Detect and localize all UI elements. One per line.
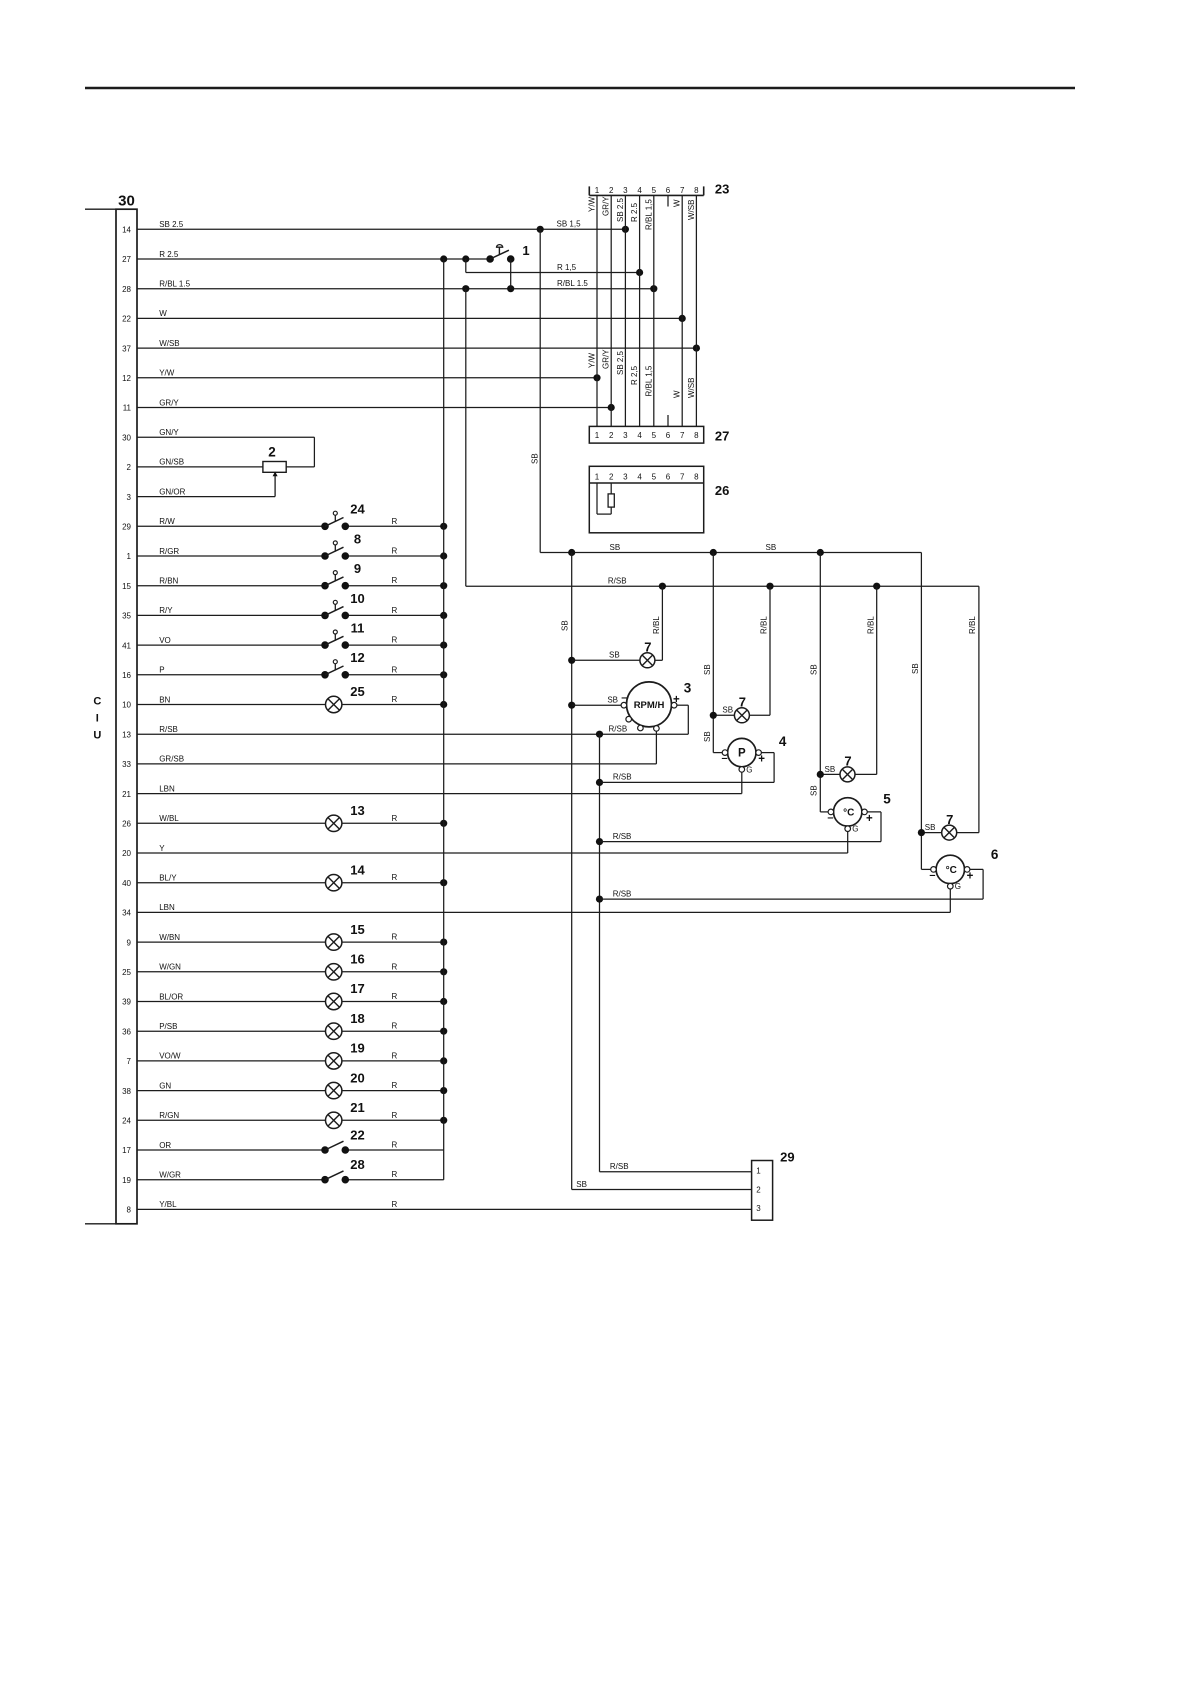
wire GN (CIU pin 38)	[122, 1081, 447, 1096]
svg-text:12: 12	[350, 650, 364, 665]
svg-text:1: 1	[595, 431, 600, 440]
svg-text:R/BN: R/BN	[159, 577, 178, 586]
svg-text:SB: SB	[810, 664, 819, 675]
wire LBN (CIU pin 21)	[122, 784, 742, 798]
svg-text:6: 6	[666, 186, 671, 195]
svg-text:R/BL: R/BL	[968, 616, 977, 634]
svg-text:22: 22	[350, 1128, 364, 1143]
lamp 19	[326, 1041, 365, 1070]
svg-text:R/SB: R/SB	[159, 725, 178, 734]
svg-text:Y: Y	[159, 844, 165, 853]
svg-text:15: 15	[122, 582, 131, 591]
svg-text:GR/Y: GR/Y	[602, 349, 611, 369]
svg-text:R: R	[392, 1051, 398, 1060]
wire R bus	[443, 259, 445, 1180]
connector 26	[589, 466, 729, 533]
switch 24	[321, 502, 365, 530]
svg-text:GR/Y: GR/Y	[159, 398, 179, 407]
switch 28	[321, 1157, 365, 1183]
svg-text:34: 34	[122, 909, 131, 918]
svg-text:–: –	[929, 870, 935, 882]
svg-text:R/BL 1.5: R/BL 1.5	[159, 280, 190, 289]
lamp 21	[326, 1100, 365, 1129]
svg-text:33: 33	[122, 760, 131, 769]
svg-text:+: +	[866, 813, 873, 825]
svg-text:+: +	[758, 753, 765, 765]
svg-text:W: W	[673, 390, 682, 398]
svg-text:2: 2	[609, 186, 614, 195]
svg-text:18: 18	[350, 1011, 364, 1026]
wire R/SB line to gauge 6	[600, 889, 984, 899]
svg-text:9: 9	[354, 561, 361, 576]
svg-text:SB 1,5: SB 1,5	[557, 220, 582, 229]
svg-text:U: U	[93, 730, 101, 742]
svg-text:10: 10	[350, 591, 364, 606]
svg-text:Y/W: Y/W	[588, 352, 597, 368]
svg-text:8: 8	[694, 473, 699, 482]
wire SB drop 3 (to gauge 5)	[810, 553, 831, 812]
wire R/Y (CIU pin 35)	[122, 606, 447, 621]
svg-text:R: R	[392, 933, 398, 942]
lamp 7 (3)	[840, 754, 855, 782]
svg-text:29: 29	[780, 1150, 794, 1165]
svg-text:SB: SB	[925, 823, 936, 832]
svg-text:9: 9	[127, 938, 132, 947]
svg-text:6: 6	[666, 473, 671, 482]
svg-text:–: –	[722, 753, 728, 765]
switch 9	[321, 561, 361, 589]
wire VO (CIU pin 41)	[122, 636, 447, 651]
svg-text:23: 23	[715, 182, 729, 197]
svg-text:R/BL 1.5: R/BL 1.5	[557, 279, 588, 288]
svg-text:5: 5	[652, 431, 657, 440]
wire switch 1 output to R/BL row	[511, 259, 589, 289]
lamp 15	[326, 922, 365, 951]
svg-text:7: 7	[680, 473, 685, 482]
lamp 25	[326, 684, 365, 713]
svg-text:11: 11	[123, 404, 132, 413]
svg-text:+: +	[967, 870, 974, 882]
lamp 7 (2)	[734, 695, 749, 723]
svg-text:R: R	[392, 992, 398, 1001]
wire Y/BL (CIU pin 8)	[127, 1200, 752, 1215]
svg-text:R 2.5: R 2.5	[630, 202, 639, 222]
svg-text:SB: SB	[531, 453, 540, 464]
svg-text:7: 7	[739, 695, 746, 710]
wire GN/SB (CIU pin 2)	[127, 458, 263, 472]
harness wire labels (lower)	[588, 349, 696, 398]
svg-text:21: 21	[122, 790, 131, 799]
svg-text:13: 13	[122, 730, 131, 739]
svg-text:SB: SB	[610, 543, 621, 552]
svg-text:10: 10	[122, 701, 131, 710]
svg-text:R/SB: R/SB	[610, 1162, 629, 1171]
svg-text:+: +	[673, 694, 680, 706]
svg-text:–: –	[621, 692, 627, 704]
svg-text:R/SB: R/SB	[613, 832, 632, 841]
svg-text:R: R	[392, 1081, 398, 1090]
svg-text:R/GR: R/GR	[159, 547, 179, 556]
lamp 7 (1)	[640, 640, 655, 668]
svg-text:6: 6	[666, 431, 671, 440]
svg-text:R 2.5: R 2.5	[159, 250, 179, 259]
svg-text:7: 7	[946, 812, 953, 827]
svg-text:27: 27	[122, 255, 131, 264]
connector 23-27 harness wires	[597, 195, 696, 426]
svg-text:R 2,5: R 2,5	[630, 365, 639, 385]
wire W/BL (CIU pin 26)	[122, 814, 447, 829]
lamp 7 (4)	[942, 812, 957, 840]
svg-text:21: 21	[350, 1100, 364, 1115]
svg-text:3: 3	[684, 680, 692, 695]
svg-text:R: R	[392, 1022, 398, 1031]
svg-text:R: R	[392, 1170, 398, 1179]
svg-text:36: 36	[122, 1027, 131, 1036]
svg-text:W/BL: W/BL	[159, 814, 179, 823]
lamp 18	[326, 1011, 365, 1039]
wire SB 2.5 (CIU pin 14)	[122, 220, 629, 235]
svg-text:R: R	[392, 962, 398, 971]
svg-text:W/SB: W/SB	[687, 200, 696, 220]
svg-text:25: 25	[122, 968, 131, 977]
svg-text:20: 20	[122, 849, 131, 858]
harness wire labels (upper)	[588, 196, 696, 230]
svg-text:BN: BN	[159, 695, 170, 704]
svg-text:G: G	[955, 882, 961, 891]
wire R 1,5 branch	[466, 259, 643, 276]
svg-text:28: 28	[122, 285, 131, 294]
wire R/BL riser from lamp 7 (3)	[855, 586, 877, 774]
svg-text:R/Y: R/Y	[159, 606, 173, 615]
svg-text:–: –	[827, 812, 833, 824]
svg-text:41: 41	[122, 641, 131, 650]
svg-text:R: R	[392, 547, 398, 556]
svg-text:°C: °C	[946, 865, 957, 876]
svg-text:P: P	[159, 666, 164, 675]
svg-text:W/GN: W/GN	[159, 963, 181, 972]
svg-text:3: 3	[127, 493, 132, 502]
svg-text:7: 7	[644, 640, 651, 655]
page header rule	[85, 87, 1075, 90]
svg-text:G: G	[852, 825, 858, 834]
svg-text:P: P	[738, 748, 746, 760]
wire BL/Y (CIU pin 40)	[122, 873, 447, 888]
svg-text:GN/SB: GN/SB	[159, 458, 184, 467]
wire R/BL feed to R/SB bus	[465, 289, 467, 587]
svg-text:SB: SB	[561, 620, 570, 631]
wire Y/W (CIU pin 12)	[122, 369, 601, 383]
wire SB bus	[540, 543, 921, 556]
svg-text:Y/W: Y/W	[588, 196, 597, 212]
wire Y (CIU pin 20)	[122, 844, 848, 858]
control unit CIU box (30)	[85, 193, 137, 1224]
wire R 2.5 (CIU pin 27)	[122, 250, 490, 264]
switch 12	[321, 650, 365, 678]
svg-text:16: 16	[350, 952, 364, 967]
connector 29	[752, 1150, 795, 1221]
wire BN (CIU pin 10)	[122, 695, 447, 710]
svg-text:3: 3	[756, 1204, 761, 1213]
wire R/BL riser from lamp 7 (2)	[749, 586, 770, 715]
wire SB branch to lamp 7 (3)	[820, 765, 840, 775]
svg-text:1: 1	[595, 186, 600, 195]
wire LBN (CIU pin 34)	[122, 903, 950, 917]
wire R/SB line to gauge 4	[600, 773, 775, 783]
lamp 17	[326, 981, 365, 1010]
svg-text:17: 17	[350, 981, 364, 996]
svg-text:VO/W: VO/W	[159, 1052, 181, 1061]
svg-text:7: 7	[127, 1057, 132, 1066]
svg-text:R: R	[392, 636, 398, 645]
svg-text:R: R	[392, 665, 398, 674]
svg-text:SB 2,5: SB 2,5	[616, 350, 625, 375]
svg-text:LBN: LBN	[159, 903, 175, 912]
lamp 16	[326, 952, 365, 981]
svg-text:Y/BL: Y/BL	[159, 1200, 177, 1209]
wire SB drop 4 (to gauge 6)	[911, 553, 934, 870]
svg-text:4: 4	[637, 431, 642, 440]
svg-text:7: 7	[680, 186, 685, 195]
svg-text:R/BL: R/BL	[760, 616, 769, 634]
wire R/BL riser from lamp 7 (1)	[652, 586, 662, 660]
wire SB drop from pin 14 row	[531, 229, 541, 552]
svg-text:2: 2	[268, 445, 276, 460]
svg-text:W: W	[159, 309, 167, 318]
svg-text:W/GR: W/GR	[159, 1171, 181, 1180]
svg-text:R/GN: R/GN	[159, 1111, 179, 1120]
svg-text:16: 16	[122, 671, 131, 680]
svg-text:11: 11	[351, 621, 365, 636]
svg-text:3: 3	[623, 473, 628, 482]
svg-text:OR: OR	[159, 1141, 171, 1150]
svg-text:SB: SB	[609, 651, 620, 660]
svg-text:GN/Y: GN/Y	[159, 428, 179, 437]
svg-text:5: 5	[652, 473, 657, 482]
svg-text:R/BL: R/BL	[652, 616, 661, 634]
svg-text:17: 17	[122, 1146, 131, 1155]
wire W (CIU pin 22)	[122, 309, 686, 323]
svg-text:GR/SB: GR/SB	[159, 755, 184, 764]
connector 23	[589, 182, 729, 197]
svg-text:SB: SB	[703, 664, 712, 675]
wire GN/OR (CIU pin 3)	[127, 487, 276, 501]
wire SB to connector 29 pin 2	[561, 553, 752, 1190]
svg-text:2: 2	[609, 431, 614, 440]
svg-text:R/BL 1,5: R/BL 1,5	[644, 365, 653, 396]
wire VO/W (CIU pin 7)	[127, 1051, 448, 1066]
svg-text:C: C	[93, 695, 101, 707]
svg-text:24: 24	[122, 1117, 131, 1126]
wire GN/Y (CIU pin 30)	[122, 428, 314, 442]
svg-text:25: 25	[350, 684, 364, 699]
wire R/SB (CIU pin 13)	[122, 724, 688, 739]
wire GR/Y (CIU pin 11)	[123, 398, 615, 412]
svg-text:40: 40	[122, 879, 131, 888]
svg-text:35: 35	[122, 612, 131, 621]
svg-text:14: 14	[122, 226, 131, 235]
wire OR (CIU pin 17)	[122, 1141, 444, 1156]
svg-text:22: 22	[122, 315, 131, 324]
wire W/BN (CIU pin 9)	[127, 933, 448, 948]
svg-text:4: 4	[779, 734, 787, 749]
svg-text:8: 8	[694, 431, 699, 440]
wire SB drop 2 (to gauge 4)	[703, 553, 725, 753]
svg-text:P/SB: P/SB	[159, 1022, 177, 1031]
svg-text:1: 1	[522, 243, 529, 258]
svg-text:8: 8	[694, 186, 699, 195]
svg-text:29: 29	[122, 523, 131, 532]
svg-text:SB: SB	[766, 543, 777, 552]
wire W/GR (CIU pin 19)	[122, 1170, 444, 1185]
svg-text:4: 4	[637, 186, 642, 195]
wire W/GN (CIU pin 25)	[122, 962, 447, 977]
svg-text:R: R	[392, 576, 398, 585]
svg-text:SB: SB	[810, 785, 819, 796]
lamp 20	[326, 1070, 365, 1099]
wire R/SB line to gauge 5	[600, 832, 882, 842]
svg-text:I: I	[96, 713, 99, 725]
svg-text:19: 19	[122, 1176, 131, 1185]
svg-text:VO: VO	[159, 636, 171, 645]
svg-text:R: R	[392, 695, 398, 704]
wire P/SB (CIU pin 36)	[122, 1022, 447, 1037]
switch 8	[321, 531, 361, 559]
switch 10	[321, 591, 365, 619]
svg-text:R 1,5: R 1,5	[557, 263, 577, 272]
svg-text:38: 38	[122, 1087, 131, 1096]
svg-text:SB 2.5: SB 2.5	[616, 197, 625, 222]
switch 22	[321, 1128, 365, 1154]
svg-text:13: 13	[350, 803, 364, 818]
wire GR/SB (CIU pin 33)	[122, 755, 656, 769]
gauge 6 (°C)	[929, 847, 999, 913]
svg-text:19: 19	[350, 1041, 364, 1056]
lamp 13	[326, 803, 365, 832]
gauge 5 (°C)	[827, 792, 891, 854]
gauge 4 (P)	[722, 734, 787, 794]
svg-text:GN: GN	[159, 1081, 171, 1090]
svg-text:°C: °C	[843, 808, 854, 819]
sensor 2 (rheostat)	[263, 437, 315, 496]
wire R/SB bus	[466, 576, 979, 590]
svg-text:3: 3	[623, 431, 628, 440]
svg-text:1: 1	[756, 1167, 761, 1176]
svg-text:SB 2.5: SB 2.5	[159, 220, 184, 229]
resistor inside connector 26	[597, 483, 614, 514]
svg-text:39: 39	[122, 998, 131, 1007]
switch 11	[321, 621, 364, 649]
svg-text:2: 2	[609, 473, 614, 482]
svg-text:24: 24	[350, 502, 365, 517]
svg-text:27: 27	[715, 429, 729, 444]
svg-text:6: 6	[991, 847, 999, 862]
svg-text:28: 28	[350, 1157, 364, 1172]
svg-text:GR/Y: GR/Y	[602, 196, 611, 216]
wire W/SB (CIU pin 37)	[122, 339, 700, 353]
svg-text:5: 5	[652, 186, 657, 195]
wire BL/OR (CIU pin 39)	[122, 992, 447, 1007]
wire P (CIU pin 16)	[122, 665, 447, 680]
svg-text:8: 8	[354, 531, 361, 546]
svg-text:2: 2	[756, 1185, 761, 1194]
svg-text:R: R	[392, 814, 398, 823]
wire SB branch to lamp 7 (2)	[713, 706, 734, 716]
wire R/W (CIU pin 29)	[122, 517, 447, 532]
svg-text:R/SB: R/SB	[608, 576, 627, 585]
svg-text:R: R	[392, 606, 398, 615]
svg-text:R/SB: R/SB	[609, 724, 628, 733]
svg-text:RPM/H: RPM/H	[634, 700, 665, 711]
wire R/SB distribution vertical	[596, 734, 752, 1172]
svg-text:20: 20	[350, 1070, 364, 1085]
svg-text:R/W: R/W	[159, 517, 175, 526]
svg-text:7: 7	[844, 754, 851, 769]
svg-text:1: 1	[595, 473, 600, 482]
wire R/BL riser from lamp 7 (4)	[957, 586, 979, 832]
svg-text:3: 3	[623, 186, 628, 195]
wire R/GN (CIU pin 24)	[122, 1111, 447, 1126]
svg-text:W/SB: W/SB	[159, 339, 179, 348]
svg-text:30: 30	[122, 433, 131, 442]
svg-text:W: W	[673, 199, 682, 207]
gauge 3 (RPM/H)	[572, 680, 692, 764]
svg-text:30: 30	[118, 193, 135, 210]
wire SB branch to lamp 7 (4)	[921, 823, 941, 833]
svg-text:BL/Y: BL/Y	[159, 874, 177, 883]
svg-text:4: 4	[637, 473, 642, 482]
wire R/BL 1.5 (CIU pin 28)	[122, 280, 657, 294]
svg-text:R: R	[392, 1141, 398, 1150]
svg-text:2: 2	[127, 463, 132, 472]
svg-text:BL/OR: BL/OR	[159, 992, 183, 1001]
wire R/GR (CIU pin 1)	[127, 547, 448, 562]
svg-text:R: R	[392, 1200, 398, 1209]
svg-text:W/SB: W/SB	[687, 378, 696, 398]
svg-text:SB: SB	[911, 663, 920, 674]
svg-text:SB: SB	[722, 706, 733, 715]
svg-text:R/BL: R/BL	[866, 616, 875, 634]
lamp 14	[326, 862, 366, 891]
svg-text:SB: SB	[576, 1180, 587, 1189]
svg-text:26: 26	[715, 483, 729, 498]
svg-text:R/SB: R/SB	[613, 889, 632, 898]
svg-text:7: 7	[680, 431, 685, 440]
switch 1	[486, 243, 529, 263]
svg-text:14: 14	[350, 862, 365, 877]
svg-text:SB: SB	[703, 731, 712, 742]
svg-text:37: 37	[122, 344, 131, 353]
svg-text:R: R	[392, 1111, 398, 1120]
svg-text:R: R	[392, 517, 398, 526]
svg-text:G: G	[746, 765, 752, 774]
svg-text:R/SB: R/SB	[613, 773, 632, 782]
svg-text:1: 1	[127, 552, 132, 561]
wire SB branch to lamp 7 (1)	[572, 651, 640, 661]
svg-text:26: 26	[122, 820, 131, 829]
svg-text:LBN: LBN	[159, 784, 175, 793]
svg-text:SB: SB	[607, 695, 618, 704]
svg-text:5: 5	[883, 792, 891, 807]
svg-text:15: 15	[350, 922, 364, 937]
svg-text:SB: SB	[825, 765, 836, 774]
connector 27	[589, 426, 729, 443]
svg-text:W/BN: W/BN	[159, 933, 180, 942]
svg-text:Y/W: Y/W	[159, 369, 175, 378]
svg-text:R/BL 1,5: R/BL 1,5	[644, 199, 653, 230]
svg-text:GN/OR: GN/OR	[159, 487, 185, 496]
svg-text:R: R	[392, 873, 398, 882]
svg-text:8: 8	[127, 1206, 132, 1215]
